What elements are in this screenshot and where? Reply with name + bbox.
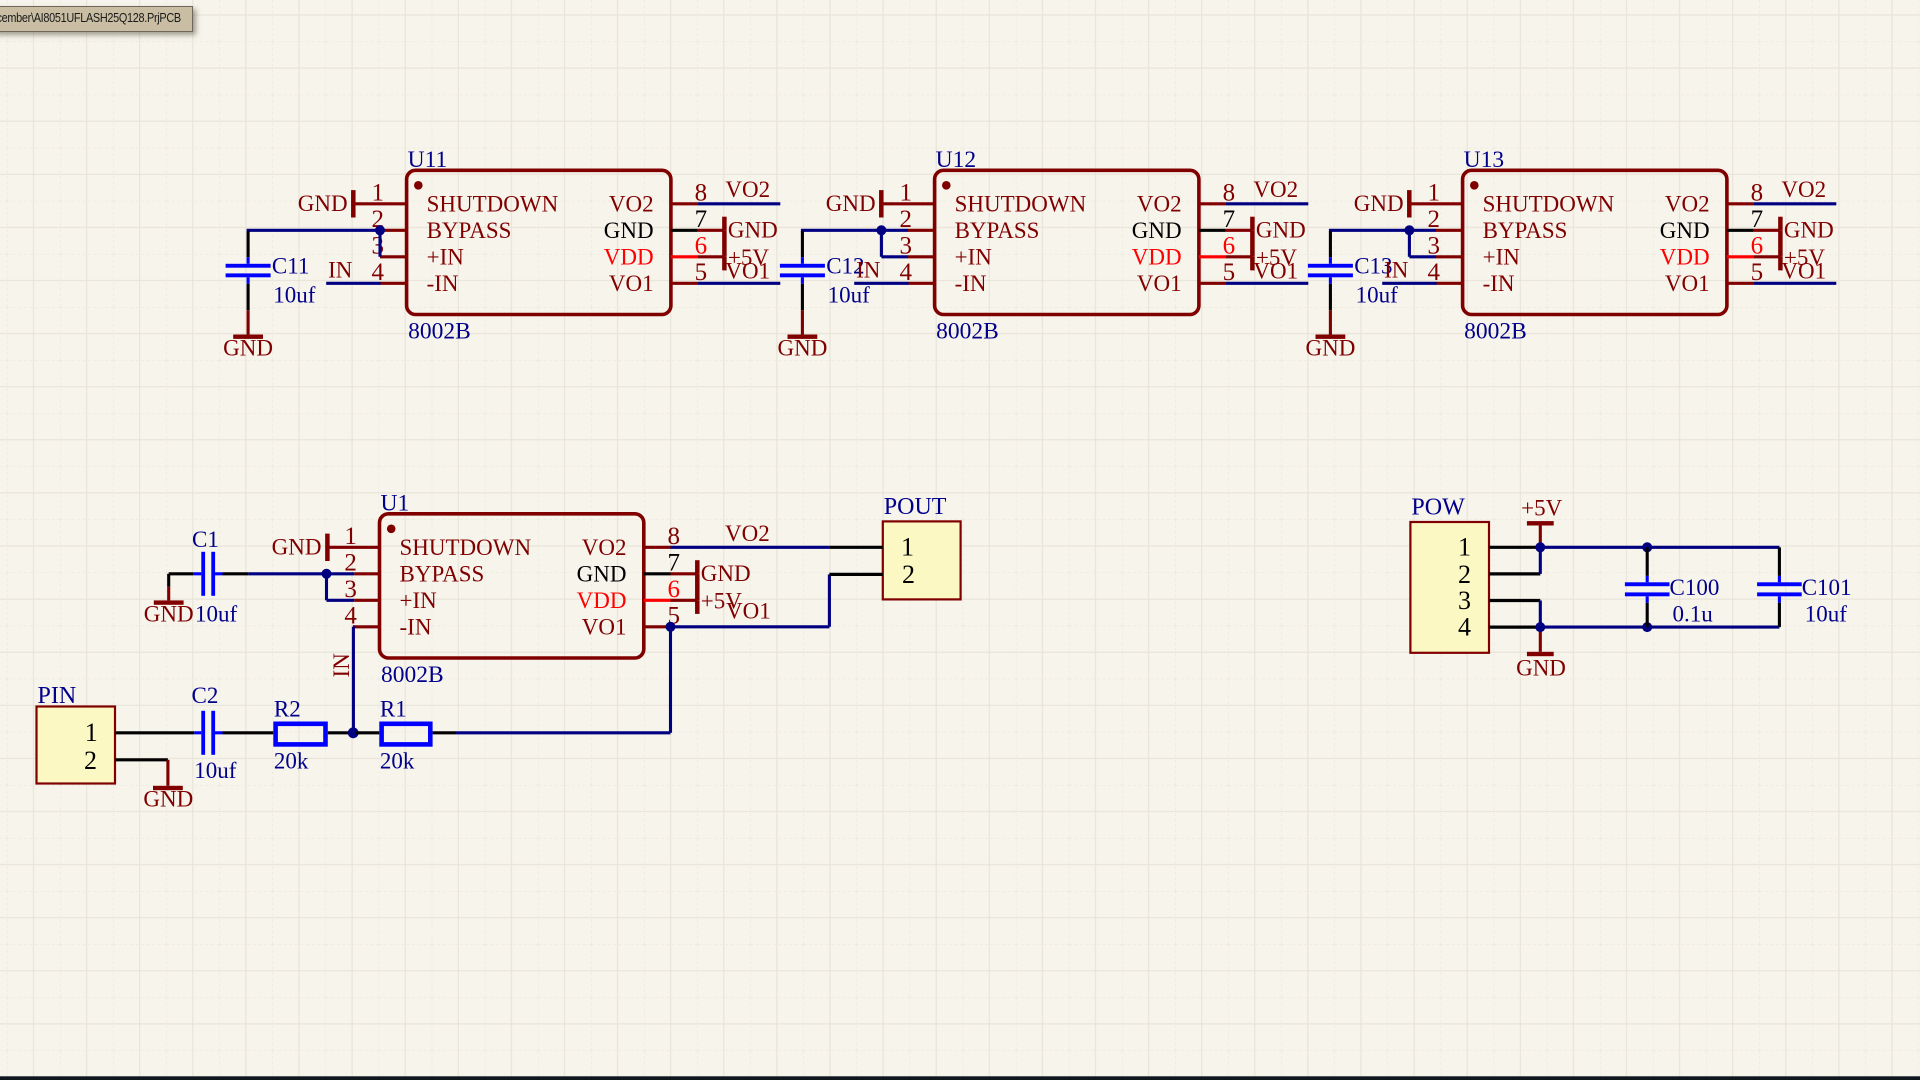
- ground power port at U11 pin 1: [298, 190, 380, 217]
- svg-text:IN: IN: [856, 258, 881, 283]
- svg-text:GND: GND: [272, 535, 322, 560]
- svg-text:GND: GND: [143, 786, 193, 811]
- wire VO1 from U11 pin 5: [698, 282, 781, 285]
- svg-text:1: 1: [901, 533, 914, 562]
- svg-text:+IN: +IN: [427, 244, 465, 269]
- wire VO1 from U12 pin 5: [1226, 282, 1309, 285]
- svg-text:VO1: VO1: [725, 258, 770, 283]
- power port +5V at U12 pin 6: [1226, 230, 1298, 270]
- wire C2 to R2: [223, 731, 274, 734]
- label PIN: [38, 683, 77, 709]
- svg-text:VO2: VO2: [725, 521, 770, 546]
- wire VO2 from U13 pin 8: [1754, 202, 1837, 205]
- svg-text:BYPASS: BYPASS: [955, 218, 1040, 243]
- svg-text:2: 2: [84, 746, 97, 775]
- net label IN at U12: [856, 258, 881, 283]
- svg-text:1: 1: [1458, 533, 1471, 562]
- wire +5V bus to C101: [1540, 546, 1779, 549]
- wire BYPASS net of U13: [1329, 230, 1436, 256]
- wire IN net (U1 pin 4 to R1/R2 junction): [353, 627, 354, 733]
- wire IN to U12 pin 4: [854, 282, 908, 285]
- junction at POW pin 4: [1535, 622, 1545, 632]
- svg-text:U1: U1: [381, 490, 410, 516]
- svg-text:GND: GND: [1354, 191, 1404, 216]
- ground power port at U13 pin 1: [1354, 190, 1436, 217]
- wire GND bus to C101: [1540, 626, 1779, 629]
- pin 1 of POUT: [829, 546, 882, 549]
- net label VO2 at U12: [1253, 177, 1298, 202]
- resistor R2 20k: [274, 697, 326, 774]
- svg-text:GND: GND: [1305, 336, 1355, 361]
- label POW: [1411, 495, 1465, 521]
- svg-text:U13: U13: [1464, 147, 1504, 173]
- ground power port at U1 pin 1: [272, 534, 380, 561]
- svg-text:-IN: -IN: [955, 271, 987, 296]
- svg-text:+IN: +IN: [400, 588, 438, 613]
- wire VO2 from U1 pin 8 to POUT pin 1: [671, 546, 830, 549]
- svg-text:VO1: VO1: [609, 271, 654, 296]
- net label VO1 at U12: [1253, 258, 1298, 283]
- ground power port below C13: [1305, 310, 1355, 360]
- wire VO2 from U12 pin 8: [1226, 202, 1309, 205]
- junction at U12 pin 2: [876, 225, 886, 235]
- svg-text:GND: GND: [701, 561, 751, 586]
- svg-text:0.1u: 0.1u: [1673, 602, 1714, 627]
- svg-text:SHUTDOWN: SHUTDOWN: [1483, 191, 1615, 216]
- junction at U13 pin 2: [1404, 225, 1414, 235]
- svg-text:8002B: 8002B: [408, 318, 471, 344]
- svg-text:3: 3: [1458, 586, 1471, 615]
- svg-text:SHUTDOWN: SHUTDOWN: [400, 535, 532, 560]
- capacitor C2 10uf: [192, 683, 237, 783]
- svg-text:10uf: 10uf: [273, 282, 316, 307]
- svg-text:GND: GND: [728, 218, 778, 243]
- svg-text:IN: IN: [329, 653, 354, 678]
- designator U11: [408, 147, 448, 173]
- wire BYPASS net of U1: [248, 574, 354, 601]
- net label IN at U13: [1384, 258, 1409, 283]
- ground power port at U12 pin 1: [826, 190, 908, 217]
- svg-text:VO1: VO1: [582, 614, 627, 639]
- net label IN at U11: [328, 258, 353, 283]
- svg-text:VO2: VO2: [609, 191, 654, 216]
- capacitor C13 10uf: [1308, 231, 1398, 310]
- svg-text:GND: GND: [777, 336, 827, 361]
- svg-text:10uf: 10uf: [828, 282, 871, 307]
- junction at POW pin 1: [1535, 542, 1545, 552]
- wire VO1 down to R1: [456, 627, 671, 733]
- op-amp U12 (8002B audio amplifier): [900, 170, 1236, 314]
- ground power port at U13 pin 7: [1754, 217, 1834, 243]
- wire BYPASS net of U11: [247, 230, 380, 256]
- designator U1: [381, 490, 410, 516]
- svg-text:-IN: -IN: [1483, 271, 1515, 296]
- svg-text:8002B: 8002B: [1464, 318, 1527, 344]
- wire IN to U13 pin 4: [1382, 282, 1436, 285]
- capacitor C12 10uf: [780, 231, 870, 310]
- svg-text:VO2: VO2: [1137, 191, 1182, 216]
- value 8002B of U1: [381, 662, 444, 688]
- wire junction to R1: [355, 731, 379, 734]
- net label VO1 at U11: [725, 258, 770, 283]
- label POUT: [884, 494, 947, 520]
- svg-text:U11: U11: [408, 147, 448, 173]
- svg-text:GND: GND: [223, 336, 273, 361]
- svg-text:VO1: VO1: [726, 599, 771, 624]
- svg-text:C11: C11: [272, 253, 310, 278]
- net label VO1 at U1: [726, 599, 771, 624]
- svg-text:C2: C2: [192, 683, 219, 708]
- svg-text:+5V: +5V: [1521, 495, 1562, 520]
- ground power port below C1: [144, 574, 194, 627]
- svg-text:VDD: VDD: [577, 588, 627, 613]
- ground power port at PIN pin 2: [143, 760, 193, 812]
- wire R1 to VO1 loop: [433, 731, 456, 734]
- svg-text:POUT: POUT: [884, 494, 947, 520]
- svg-text:20k: 20k: [274, 749, 309, 774]
- connector POW: [1410, 522, 1489, 653]
- svg-text:C101: C101: [1802, 575, 1852, 600]
- svg-text:GND: GND: [1516, 655, 1566, 680]
- svg-text:-IN: -IN: [427, 271, 459, 296]
- svg-text:VO1: VO1: [1781, 258, 1826, 283]
- svg-text:SHUTDOWN: SHUTDOWN: [427, 191, 559, 216]
- wire VO1 from U13 pin 5: [1754, 282, 1837, 285]
- svg-text:BYPASS: BYPASS: [400, 561, 485, 586]
- junction at U11 pin 2: [375, 225, 385, 235]
- net label VO2 at U13: [1781, 177, 1826, 202]
- junction between R2 and R1: [348, 727, 359, 738]
- svg-text:2: 2: [902, 560, 915, 589]
- svg-text:C100: C100: [1670, 575, 1720, 600]
- svg-text:GND: GND: [1256, 218, 1306, 243]
- wire BYPASS net of U12: [801, 230, 908, 256]
- net label IN (vertical) at U1: [329, 653, 354, 678]
- svg-text:PIN: PIN: [38, 683, 77, 709]
- ground power port below C11: [223, 310, 273, 360]
- svg-text:VO1: VO1: [1253, 258, 1298, 283]
- svg-text:VO2: VO2: [582, 535, 627, 560]
- svg-text:BYPASS: BYPASS: [427, 218, 512, 243]
- svg-text:GND: GND: [1132, 218, 1182, 243]
- svg-text:3: 3: [372, 232, 385, 259]
- wire R2 to junction: [328, 731, 351, 734]
- svg-text:VO1: VO1: [1665, 271, 1710, 296]
- svg-text:-IN: -IN: [400, 614, 432, 639]
- svg-text:GND: GND: [1784, 218, 1834, 243]
- svg-text:VO2: VO2: [1665, 191, 1710, 216]
- wire VO2 from U11 pin 8: [698, 202, 781, 205]
- svg-text:4: 4: [344, 602, 357, 629]
- svg-text:GND: GND: [1660, 218, 1710, 243]
- svg-text:10uf: 10uf: [194, 758, 237, 783]
- capacitor C11 10uf: [226, 231, 316, 310]
- op-amp U1 (8002B audio amplifier): [344, 514, 680, 658]
- value 8002B of U11: [408, 318, 471, 344]
- svg-text:GND: GND: [144, 601, 194, 626]
- svg-text:VDD: VDD: [604, 244, 654, 269]
- svg-text:VDD: VDD: [1132, 244, 1182, 269]
- svg-text:8002B: 8002B: [936, 318, 999, 344]
- designator U13: [1464, 147, 1504, 173]
- svg-text:GND: GND: [826, 191, 876, 216]
- junction at U1 pin 2: [322, 569, 332, 579]
- junction at C100 top: [1642, 542, 1652, 552]
- capacitor C100 0.1u: [1625, 547, 1719, 627]
- bottom dark status strip: [0, 1076, 1920, 1080]
- power port +5V at U13 pin 6: [1754, 230, 1826, 270]
- svg-text:SHUTDOWN: SHUTDOWN: [955, 191, 1087, 216]
- pin 1 of PIN connector: [115, 731, 168, 734]
- op-amp U13 (8002B audio amplifier): [1428, 170, 1764, 314]
- power port +5V above POW: [1521, 495, 1562, 547]
- net label VO2 at U11: [725, 177, 770, 202]
- capacitor C1 10uf: [169, 527, 248, 627]
- value 8002B of U12: [936, 318, 999, 344]
- svg-text:U12: U12: [936, 147, 976, 173]
- connector POUT: [883, 521, 961, 599]
- ground power port at U11 pin 7: [698, 217, 778, 243]
- wire PIN pin1 to C2: [168, 731, 194, 734]
- value 8002B of U13: [1464, 318, 1527, 344]
- svg-text:IN: IN: [1384, 258, 1409, 283]
- ground power port below C12: [777, 310, 827, 360]
- ground power port at U12 pin 7: [1226, 217, 1306, 243]
- svg-text:+IN: +IN: [955, 244, 993, 269]
- svg-text:GND: GND: [298, 191, 348, 216]
- pin 2 of POUT: [829, 573, 882, 576]
- pin 2 of PIN connector: [115, 758, 168, 761]
- junction at C100 bottom: [1642, 622, 1652, 632]
- power port +5V at U11 pin 6: [698, 230, 770, 270]
- svg-text:VO2: VO2: [725, 177, 770, 202]
- svg-text:GND: GND: [604, 218, 654, 243]
- junction at U1 pin 5: [666, 622, 676, 632]
- svg-text:8002B: 8002B: [381, 662, 444, 688]
- svg-text:BYPASS: BYPASS: [1483, 218, 1568, 243]
- wire POW pin1-pin2 tie: [1539, 547, 1542, 574]
- svg-text:20k: 20k: [380, 749, 415, 774]
- connector PIN: [37, 707, 116, 784]
- svg-text:GND: GND: [577, 561, 627, 586]
- ground power port at U1 pin 7: [671, 560, 751, 586]
- svg-text:10uf: 10uf: [1356, 282, 1399, 307]
- svg-text:VO2: VO2: [1781, 177, 1826, 202]
- svg-text:VO1: VO1: [1137, 271, 1182, 296]
- svg-text:VO2: VO2: [1253, 177, 1298, 202]
- net label VO1 at U13: [1781, 258, 1826, 283]
- svg-text:10uf: 10uf: [1805, 602, 1848, 627]
- svg-text:2: 2: [1458, 560, 1471, 589]
- resistor R1 20k: [380, 697, 430, 774]
- svg-text:VDD: VDD: [1660, 244, 1710, 269]
- op-amp U11 (8002B audio amplifier): [372, 170, 708, 314]
- svg-text:POW: POW: [1411, 495, 1465, 521]
- pins of POW connector: [1489, 547, 1540, 627]
- svg-text:4: 4: [1458, 612, 1471, 641]
- designator U12: [936, 147, 976, 173]
- wire POW pin3-pin4 tie: [1539, 601, 1542, 628]
- svg-text:IN: IN: [328, 258, 353, 283]
- capacitor C101 10uf: [1757, 547, 1851, 627]
- svg-text:R1: R1: [380, 697, 407, 722]
- svg-text:10uf: 10uf: [195, 601, 238, 626]
- power port +5V at U1 pin 6: [671, 574, 743, 614]
- svg-text:R2: R2: [274, 697, 301, 722]
- wire IN to U11 pin 4: [326, 282, 380, 285]
- svg-text:1: 1: [85, 718, 98, 747]
- svg-text:C1: C1: [192, 527, 219, 552]
- svg-text:+IN: +IN: [1483, 244, 1521, 269]
- net label VO2 at U1: [725, 521, 770, 546]
- wire VO1 from U1 pin 5 to POUT pin 2: [671, 574, 830, 626]
- ground power port below POW: [1516, 627, 1566, 680]
- tooltip with project file path: [0, 6, 193, 32]
